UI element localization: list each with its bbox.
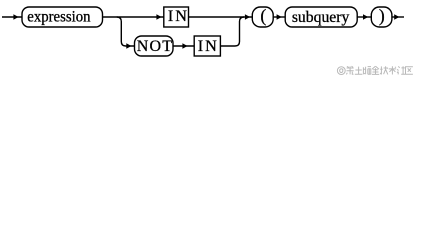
svg-text:IN: IN [198,37,219,55]
terminal box close paren [371,7,392,27]
arrowhead before close paren [363,14,368,20]
svg-text:(: ( [260,6,266,26]
watermark char she [397,66,405,74]
svg-text:IN: IN [168,7,189,25]
terminal box subquery [285,7,357,27]
watermark char qu [406,67,413,75]
wire start segment [2,16,22,18]
arrowhead before open paren [245,14,250,20]
keyword box IN top [164,7,189,27]
svg-text:subquery: subquery [292,9,350,26]
arrowhead before IN bottom [182,43,187,49]
svg-text:NOT: NOT [137,38,173,55]
wire NOT to IN bottom [173,45,194,47]
arrowhead end [394,14,399,20]
wire branch down to NOT [117,17,135,46]
terminal box open paren [252,7,273,27]
watermark at sign [337,67,345,75]
svg-text:expression: expression [27,8,90,26]
keyword box NOT [135,36,174,56]
watermark juejin [0,0,1,1]
watermark char jue [363,67,371,75]
watermark char xi [346,66,353,74]
watermark char jin [372,66,379,74]
arrowhead before NOT [126,43,131,49]
terminal box expression [22,7,103,27]
wire expression to IN [103,16,164,18]
wire IN to open paren [189,16,253,18]
watermark char shu [389,66,396,74]
wire open paren to subquery [273,16,285,18]
keyword box IN bottom [194,36,220,56]
arrowhead start [13,14,18,20]
wire end segment [392,16,404,18]
watermark char tu [355,67,363,75]
wire branch merge up [220,17,244,46]
svg-text:): ) [379,6,385,26]
watermark char ji [380,66,388,74]
arrowhead before subquery [277,14,282,20]
arrowhead before IN [156,14,161,20]
wire subquery to close paren [357,16,371,18]
